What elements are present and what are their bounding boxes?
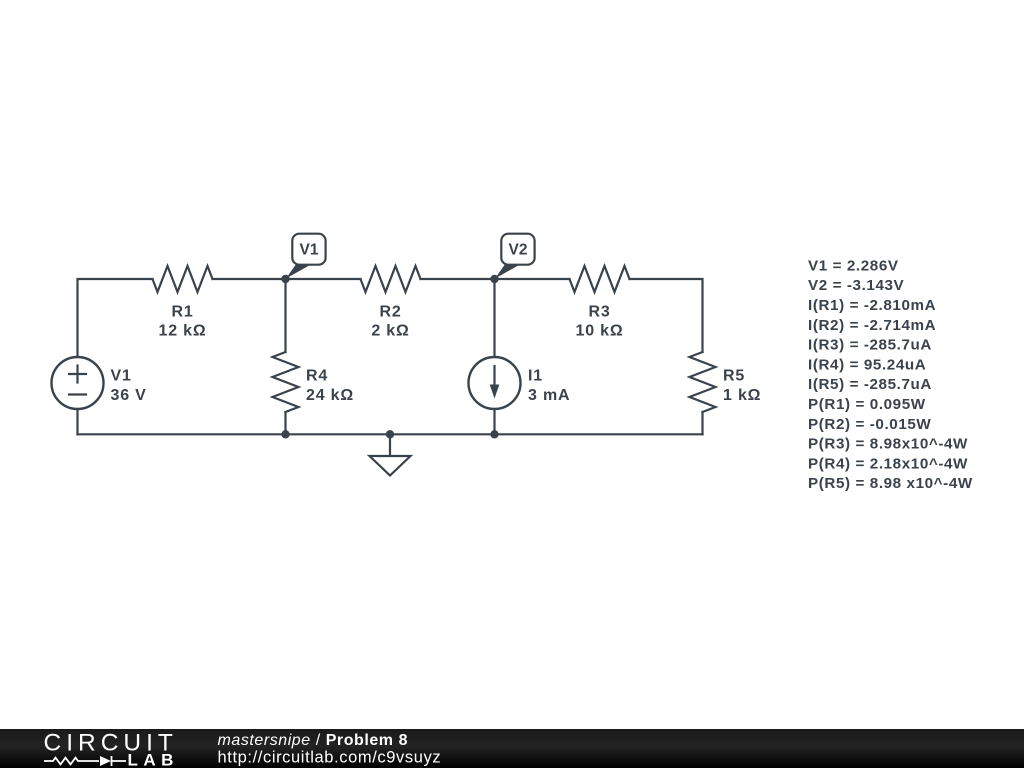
svg-text:http://circuitlab.com/c9vsuyz: http://circuitlab.com/c9vsuyz <box>218 748 442 766</box>
label R5 value <box>723 368 761 405</box>
resistor R3 <box>570 266 630 292</box>
footer bar <box>0 729 1024 768</box>
wire top-left corner: V1 top to R1 <box>78 279 153 357</box>
wire R3 to top-right corner down to R5 <box>630 279 703 352</box>
wire R1 to node V1 <box>213 278 286 280</box>
CircuitLab logo wordmark CIRCUIT <box>44 729 178 756</box>
footer url text <box>218 748 442 766</box>
wire node V2 to R3 <box>495 278 570 280</box>
junction node bottom R4 <box>281 430 289 438</box>
label R2 value <box>371 304 409 340</box>
wire R5 bottom <box>701 412 703 434</box>
CircuitLab logo resistor-diode symbol <box>44 756 126 766</box>
ground symbol <box>370 456 411 476</box>
resistor R4 <box>273 352 299 412</box>
voltage source V1 circle <box>52 357 104 409</box>
junction node bottom ground <box>386 430 394 438</box>
label I1 value <box>528 368 570 405</box>
junction node at V1 top <box>281 275 289 283</box>
wire node V2 down to I1 <box>493 279 495 357</box>
junction node at V2 top <box>490 275 498 283</box>
bottom wire <box>78 433 703 435</box>
current source I1 circle <box>469 357 521 409</box>
node flag V2 <box>495 234 535 279</box>
voltage source V1 minus sign <box>69 393 86 395</box>
resistor R5 <box>690 352 716 412</box>
ground stem wire <box>389 434 391 456</box>
label V1 value <box>111 368 147 405</box>
footer title text <box>218 732 409 749</box>
resistor R1 <box>153 266 213 292</box>
wire node V1 to R2 <box>286 278 361 280</box>
junction node bottom I1 <box>490 430 498 438</box>
label R1 value <box>159 304 207 340</box>
label R4 value <box>306 368 354 405</box>
label R3 value <box>576 304 624 340</box>
node flag V1 <box>286 234 326 279</box>
current source I1 arrow <box>490 366 500 399</box>
voltage source V1 plus sign <box>69 366 86 383</box>
wire node V1 down to R4 <box>284 279 286 352</box>
wire R4 to bottom wire <box>284 412 286 434</box>
svg-text:LAB: LAB <box>128 751 179 768</box>
CircuitLab logo wordmark LAB <box>128 751 179 768</box>
wire V1 bottom <box>76 409 78 434</box>
svg-text:mastersnipe / Problem 8: mastersnipe / Problem 8 <box>218 732 409 749</box>
wire I1 bottom <box>493 409 495 434</box>
wire R2 to node V2 <box>421 278 495 280</box>
results text: node voltages and branch currents <box>808 257 973 492</box>
resistor R2 <box>361 266 421 292</box>
